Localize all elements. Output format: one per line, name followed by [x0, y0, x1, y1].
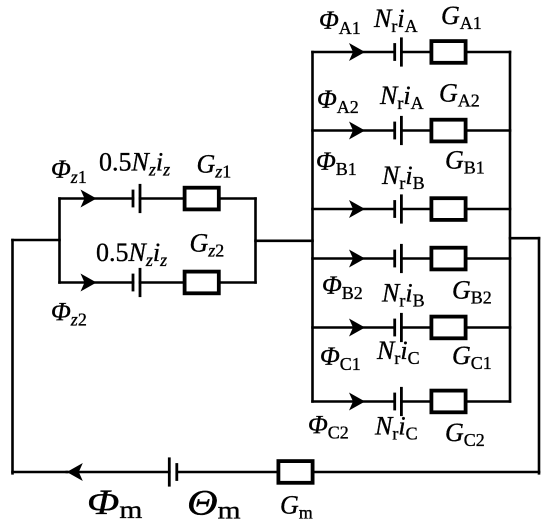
wire: branch z1 wire (bus to battery)	[60, 197, 134, 200]
wire: branch B2 wire (box to bus)	[468, 257, 511, 260]
MMF source Nr iA (branch A2)	[395, 117, 402, 143]
wire: bottom wire (Gm box to right)	[314, 471, 539, 474]
wire: branch z2 wire (box to bus)	[221, 281, 256, 284]
MMF source Nr iC (branch C2)	[395, 388, 402, 414]
MMF source Nr iB (branch B2)	[395, 245, 402, 271]
wire: connector: stator-z right bus to rotor left bus	[256, 240, 313, 243]
wire: branch z1 wire (battery to box)	[140, 197, 185, 200]
conductance GB2 (rectangle)	[431, 248, 465, 270]
conductance Gz2 (rectangle)	[185, 272, 219, 294]
wire: rotor block right bus vertical	[509, 52, 512, 402]
flux arrow ΦC2	[349, 393, 365, 411]
wire: branch A2 wire (box to bus)	[468, 129, 511, 132]
flux arrow ΦA2	[349, 122, 365, 140]
MMF source 0.5Nz iz (branch z2)	[133, 269, 140, 295]
conductance GC1 (rectangle)	[431, 317, 465, 339]
conductance GC2 (rectangle)	[431, 391, 465, 413]
flux arrow ΦB2	[349, 250, 365, 268]
wire: bottom wire (Θm to Gm box)	[177, 471, 279, 474]
wire: branch B1 wire (battery to box)	[401, 208, 431, 211]
MMF source Nr iC (branch C1)	[395, 314, 402, 340]
wire: outer loop right vertical	[538, 238, 541, 473]
flux arrow Φz1	[81, 190, 97, 208]
wire: branch z2 wire (battery to box)	[140, 281, 185, 284]
MMF source 0.5Nz iz (branch z1)	[133, 185, 140, 211]
wire: branch B2 wire (bus to battery)	[313, 257, 395, 260]
MMF source Θm (battery symbol, tall plate left)	[169, 459, 177, 485]
flux arrow ΦC1	[349, 319, 365, 337]
MMF source Nr iB (branch B1)	[395, 196, 402, 222]
wire: branch A2 wire (bus to battery)	[313, 129, 395, 132]
conductance GB1 (rectangle)	[431, 198, 465, 220]
flux arrow ΦB1	[349, 200, 365, 218]
wire: branch C1 wire (battery to box)	[401, 326, 431, 329]
wire: branch B2 wire (battery to box)	[401, 257, 431, 260]
conductance GA1 (rectangle)	[431, 41, 465, 63]
wire: branch C2 wire (battery to box)	[401, 400, 431, 403]
wire: branch B1 wire (bus to battery)	[313, 208, 395, 211]
conductance Gm (rectangle)	[278, 461, 312, 483]
conductance Gz1 (rectangle)	[185, 188, 219, 210]
wire: branch z1 wire (box to bus)	[221, 197, 256, 200]
wire: branch z2 wire (bus to battery)	[60, 281, 134, 284]
wire: branch B1 wire (box to bus)	[468, 208, 511, 211]
wire: branch A1 wire (bus to battery)	[313, 51, 395, 54]
wire: bottom wire left segment (to arrow tip)	[13, 471, 67, 474]
svg-text:0.5Nziz: 0.5Nziz	[99, 148, 170, 180]
wire: branch A1 wire (box to bus)	[468, 51, 511, 54]
wire: z-block left bus vertical	[58, 199, 61, 283]
wire: outer loop left vertical	[11, 240, 14, 473]
wire: rotor block left bus vertical	[311, 52, 314, 402]
wire: branch C2 wire (bus to battery)	[313, 400, 395, 403]
MMF source Nr iA (branch A1)	[395, 39, 402, 65]
conductance GA2 (rectangle)	[431, 120, 465, 142]
flux arrow ΦA1	[349, 43, 365, 61]
wire: branch C2 wire (box to bus)	[468, 400, 511, 403]
wire: branch C1 wire (box to bus)	[468, 326, 511, 329]
flux arrow Φm (points left)	[67, 463, 83, 481]
flux arrow Φz2	[81, 274, 97, 292]
wire: connector: right bus to outer right vertical	[510, 237, 539, 240]
wire: branch A2 wire (battery to box)	[401, 129, 431, 132]
wire: connector: outer left to stator-z left bus	[13, 239, 60, 242]
wire: branch A1 wire (battery to box)	[401, 51, 431, 54]
wire: branch C1 wire (bus to battery)	[313, 326, 395, 329]
svg-text:0.5Nziz: 0.5Nziz	[96, 238, 167, 270]
wire: bottom wire (arrow to MMF source Θm)	[67, 471, 170, 474]
wire: z-block right bus vertical	[254, 199, 257, 283]
